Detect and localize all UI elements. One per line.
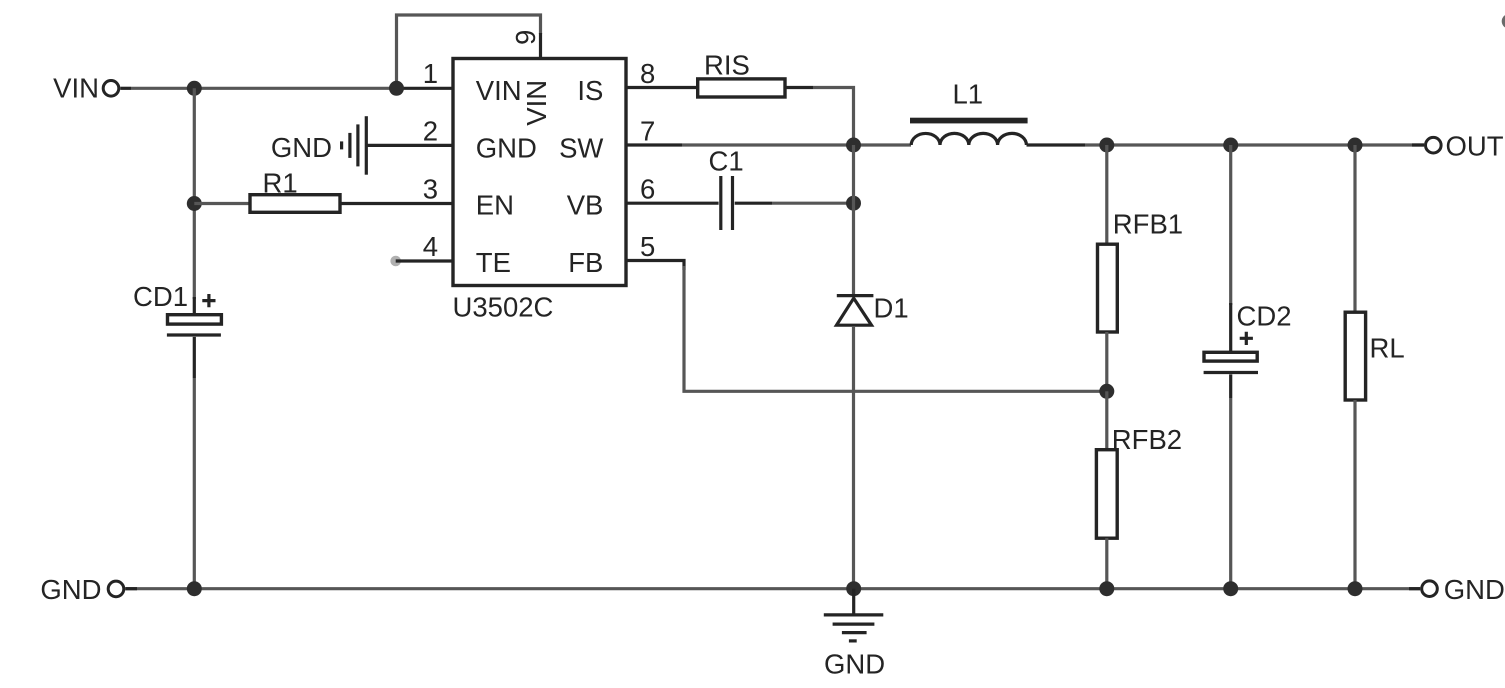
node CD2 top junction	[1223, 138, 1238, 153]
node GND-CD2 junction	[1223, 581, 1238, 596]
resistor RL	[1345, 312, 1404, 400]
svg-text:CD1: CD1	[133, 281, 188, 312]
node RL top junction	[1348, 138, 1363, 153]
node GND-CD1 junction	[187, 581, 202, 596]
node pin1 junction	[389, 81, 404, 96]
wire pin4	[396, 259, 452, 262]
node VIN junction	[187, 81, 202, 96]
svg-text:D1: D1	[874, 293, 909, 324]
wire RFB1 bottom lead	[1105, 332, 1108, 391]
wire pin7 SW stub	[627, 143, 683, 146]
capacitor C1	[709, 146, 744, 231]
svg-text:TE: TE	[476, 247, 511, 278]
svg-text:RFB1: RFB1	[1113, 209, 1183, 240]
wire RL bottom lead	[1353, 400, 1356, 589]
wire GND rail	[125, 587, 1420, 590]
svg-text:R1: R1	[263, 168, 298, 199]
wire CD1 column upper	[193, 88, 196, 299]
resistor RFB2	[1096, 424, 1182, 538]
svg-text:VIN: VIN	[53, 73, 99, 104]
svg-text:EN: EN	[476, 190, 514, 221]
svg-text:FB: FB	[568, 247, 603, 278]
wire pin6 to C1	[627, 202, 719, 205]
svg-text:5: 5	[640, 231, 655, 262]
wire pin5 FB stub	[627, 261, 685, 271]
wire RFB2 bottom lead	[1105, 538, 1108, 589]
node FB junction	[1099, 384, 1114, 399]
svg-text:GND: GND	[824, 648, 885, 679]
wire R1 to pin3	[340, 202, 452, 205]
node GND-D1 junction	[846, 581, 861, 596]
svg-text:4: 4	[423, 231, 438, 262]
wire OUT rail	[1085, 143, 1424, 146]
wire RIS right lead	[785, 86, 813, 89]
capacitor CD1	[133, 281, 221, 378]
terminal GND left	[40, 574, 123, 605]
wire RFB2 top lead	[1105, 391, 1108, 449]
node SW junction	[846, 138, 861, 153]
svg-text:GND: GND	[271, 132, 332, 163]
wire pin9 loop	[397, 15, 541, 88]
ground GND pin2 symbol	[271, 116, 366, 175]
wire VIN rail	[131, 87, 397, 90]
svg-text:6: 6	[640, 174, 655, 205]
svg-text:GND: GND	[1444, 574, 1505, 605]
resistor RFB1	[1098, 209, 1184, 333]
node GND-RFB2 junction	[1099, 581, 1114, 596]
wire RFB1 top lead	[1105, 145, 1108, 244]
wire FB net	[684, 266, 1107, 391]
svg-text:CD2: CD2	[1237, 301, 1292, 332]
node RFB1 top junction	[1099, 138, 1114, 153]
terminal OUT	[1426, 131, 1504, 162]
node GND-RL junction	[1348, 581, 1363, 596]
wire pin9 stub	[539, 33, 542, 58]
wire R1 left lead	[194, 202, 250, 205]
svg-text:RFB2: RFB2	[1112, 424, 1182, 455]
svg-text:GND: GND	[40, 574, 101, 605]
resistor R1	[250, 168, 340, 213]
wire RL top lead	[1353, 145, 1356, 312]
svg-text:8: 8	[640, 58, 655, 89]
diode D1	[837, 293, 909, 326]
terminal VIN	[53, 73, 119, 104]
svg-text:RL: RL	[1370, 333, 1405, 364]
svg-text:9: 9	[510, 30, 541, 45]
svg-text:OUT: OUT	[1446, 131, 1504, 162]
svg-text:1: 1	[423, 58, 438, 89]
svg-text:C1: C1	[709, 146, 744, 177]
wire CD1 column lower	[193, 378, 196, 589]
clipped glyph at right edge	[1502, 14, 1505, 29]
wire GND left terminal stub	[125, 587, 137, 590]
op-amp U1 IC body U3502C	[453, 59, 627, 323]
node R1 junction	[187, 196, 202, 211]
svg-text:RIS: RIS	[704, 50, 750, 81]
wire RIS to SW node	[813, 88, 854, 146]
wire SW net	[682, 143, 911, 146]
svg-text:VIN: VIN	[521, 80, 552, 126]
wire L1 right lead	[1027, 143, 1086, 146]
inductor L1	[910, 78, 1028, 145]
wire pin1 stub	[397, 87, 452, 90]
svg-text:VIN: VIN	[476, 75, 522, 106]
terminal GND right	[1422, 574, 1505, 605]
wire VIN terminal stub	[120, 87, 131, 90]
svg-text:IS: IS	[577, 75, 603, 106]
svg-text:GND: GND	[476, 132, 537, 163]
resistor RIS	[698, 50, 785, 98]
capacitor CD2	[1204, 301, 1292, 399]
svg-text:2: 2	[423, 116, 438, 147]
wire C1 right lead	[735, 202, 772, 205]
svg-text:U3502C: U3502C	[453, 291, 554, 322]
wire D1 column lower	[852, 326, 855, 589]
svg-text:VB: VB	[567, 190, 604, 221]
node VB junction	[846, 196, 861, 211]
wire GND right terminal stub	[1409, 587, 1420, 590]
wire OUT terminal stub	[1412, 143, 1424, 146]
wire ground to pin2	[367, 144, 452, 147]
wire CD2 top lead	[1229, 145, 1232, 305]
svg-text:3: 3	[423, 174, 438, 205]
wire D1 column upper	[852, 145, 855, 296]
svg-text:SW: SW	[559, 132, 603, 163]
ground GND bottom symbol	[824, 589, 885, 680]
node pin4 open dot	[390, 256, 401, 267]
wire pin8 to RIS	[627, 86, 698, 89]
wire CD2 bottom lead	[1229, 398, 1232, 589]
wire C1 to VB node	[772, 202, 854, 205]
svg-text:7: 7	[640, 116, 655, 147]
svg-text:L1: L1	[953, 78, 984, 109]
